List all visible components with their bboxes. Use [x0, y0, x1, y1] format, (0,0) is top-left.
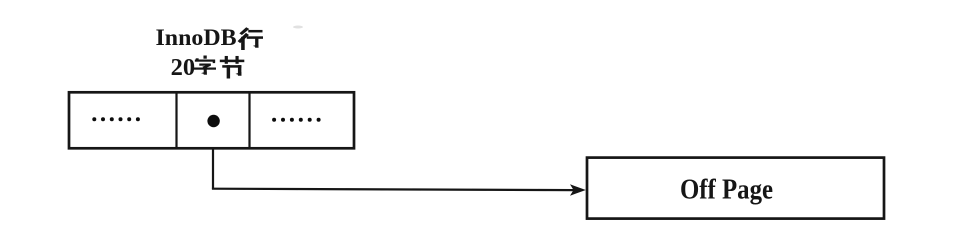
svg-text:Off Page: Off Page	[680, 175, 773, 206]
cell divider 2	[248, 92, 250, 148]
left cell ellipsis dots	[92, 117, 140, 121]
label CJK char 行 (row)	[238, 27, 263, 50]
wire vertical from bullet cell	[212, 148, 214, 189]
svg-text:20: 20	[171, 54, 196, 81]
arrowhead	[570, 184, 586, 195]
svg-text:InnoDB: InnoDB	[156, 25, 237, 50]
wire horizontal to Off Page	[212, 189, 574, 190]
cell divider 1	[175, 92, 177, 148]
main InnoDB row box	[69, 92, 354, 148]
pointer bullet dot	[207, 115, 219, 127]
Off Page box	[587, 158, 884, 219]
right cell ellipsis dots	[272, 118, 321, 122]
label CJK char 节 (byte-2)	[220, 56, 245, 79]
label CJK char 字 (byte-1)	[194, 56, 216, 75]
scan smudge artifact	[293, 26, 303, 29]
